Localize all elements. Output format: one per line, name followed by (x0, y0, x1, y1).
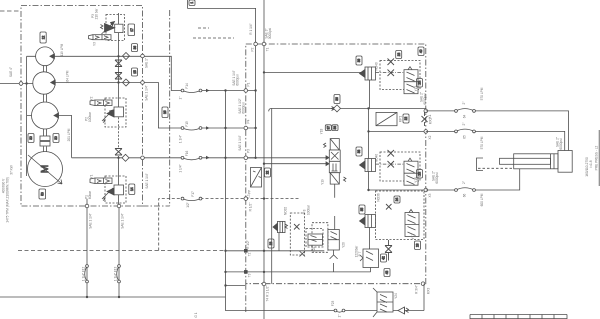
svg-text:1": 1" (179, 97, 183, 100)
svg-text:M: M (40, 165, 51, 173)
coupling (40, 136, 50, 141)
gauge plate MP1 (376, 112, 397, 125)
svg-text:F17: F17 (191, 191, 195, 197)
svg-text:38: 38 (357, 150, 361, 154)
svg-text:100bar: 100bar (88, 111, 92, 122)
piston rod (500, 158, 551, 164)
label box 1 (189, 0, 195, 6)
T3 return line inside (246, 271, 371, 273)
svg-text:Y2: Y2 (90, 96, 94, 100)
svg-text:570 LPM: 570 LPM (480, 136, 484, 149)
svg-text:2": 2" (462, 102, 466, 105)
shut-off valve X lower (115, 73, 122, 80)
port T2 square (244, 249, 248, 253)
label box 15 (132, 68, 138, 76)
drain manifold vertical x=225.5 (225, 91, 227, 298)
case drain line F12 (86, 199, 88, 297)
X1 work line to cylinder (426, 111, 569, 151)
solenoid valve Y24 (373, 288, 398, 317)
motor variable arrow (28, 155, 62, 184)
svg-text:37: 37 (327, 126, 331, 130)
svg-text:14: 14 (130, 187, 134, 191)
svg-text:Y24: Y24 (394, 293, 398, 299)
pump 1 pressure line (to P1 port) (54, 56, 245, 90)
P3 line inside to prop valve (246, 157, 326, 159)
tank return line T1 from top (263, 0, 265, 44)
svg-text:T1: T1 (266, 47, 270, 51)
port T3 square (244, 270, 248, 274)
solenoid vent valve Y1 (95, 178, 112, 184)
svg-text:65: 65 (463, 135, 467, 139)
hose F12 (85, 266, 87, 282)
svg-text:Y1: Y1 (90, 174, 94, 178)
svg-text:38: 38 (333, 126, 337, 130)
power unit rotated texts (2, 8, 342, 318)
svg-text:16: 16 (163, 110, 167, 114)
svg-text:SAE 1 1/4": SAE 1 1/4" (121, 213, 125, 229)
pump 2 pressure line (to P4 port) (55, 83, 246, 129)
svg-text:F13: F13 (114, 267, 118, 273)
svg-text:23: 23 (269, 242, 273, 246)
svg-text:1": 1" (338, 315, 342, 318)
label box 22a (265, 168, 271, 177)
svg-text:R 1/2": R 1/2" (246, 240, 250, 249)
svg-text:F14: F14 (185, 83, 189, 89)
hose F16 (183, 158, 201, 160)
filter PP (251, 168, 262, 188)
solenoid vent valve Y3 (93, 35, 111, 40)
svg-text:SAE 1 1/4": SAE 1 1/4" (89, 213, 93, 229)
valve Y20 (303, 184, 346, 272)
tank distribution line (264, 71, 361, 73)
svg-text:600 LPM: 600 LPM (480, 193, 484, 206)
hose F14 (183, 91, 201, 93)
label box 22b (403, 114, 409, 123)
svg-text:39: 39 (357, 59, 361, 63)
svg-text:Y17: Y17 (411, 233, 415, 239)
svg-text:R 1/2": R 1/2" (249, 203, 253, 212)
manifold enclosure (dash-dot box) (246, 44, 426, 312)
relief cartridge Y3 (115, 24, 123, 32)
svg-text:40: 40 (419, 49, 423, 53)
block left edge (269, 108, 272, 283)
svg-text:F15: F15 (185, 121, 189, 127)
svg-text:400/690 V: 400/690 V (2, 178, 6, 193)
check valve diamond W on main line (332, 105, 341, 112)
svg-text:T2: T2 (248, 252, 252, 256)
label box 30 (28, 134, 34, 143)
label box 36b (334, 95, 340, 104)
relief cartridge Y2 (114, 107, 124, 117)
pump P2 flow triangle (51, 80, 56, 85)
svg-text:SAE 1": SAE 1" (145, 58, 149, 68)
svg-text:Y20: Y20 (342, 242, 346, 248)
svg-text:6000psi: 6000psi (242, 102, 246, 113)
top truncation dashes (198, 27, 209, 29)
svg-text:1475 TPM (MAX.2100/MIN.700): 1475 TPM (MAX.2100/MIN.700) (6, 177, 10, 222)
relief cartridge Y1 (114, 185, 124, 195)
pilot cluster Y17 (376, 191, 425, 240)
label box 42 (381, 254, 387, 262)
svg-text:23: 23 (397, 53, 401, 57)
svg-text:NO32: NO32 (284, 207, 288, 216)
rod clevis (477, 158, 484, 171)
label box 12 (40, 32, 46, 43)
svg-text:22: 22 (404, 117, 408, 121)
hose F17 (183, 199, 201, 201)
edge continuation dashes (0, 10, 19, 12)
label box 39 (356, 56, 362, 65)
svg-text:1 1/4": 1 1/4" (179, 164, 183, 172)
pump P3 circle (36, 47, 55, 66)
svg-text:SAE 1 1/4": SAE 1 1/4" (145, 173, 149, 189)
pump P1 flow triangle (54, 113, 59, 118)
label box 38 (332, 125, 338, 131)
pump 3 pressure line (to P3 port) (59, 116, 246, 158)
svg-text:F23: F23 (331, 301, 335, 307)
label box 37 (325, 125, 331, 131)
svg-text:NO40: NO40 (375, 62, 379, 71)
pilot cluster Y16 (375, 150, 421, 185)
svg-text:P3: P3 (247, 149, 251, 153)
label box 23c (415, 241, 421, 250)
svg-text:2": 2" (462, 181, 466, 184)
svg-text:36: 36 (133, 46, 137, 50)
svg-text:1 1/4": 1 1/4" (114, 273, 118, 281)
supply rail inside manifold (246, 44, 256, 158)
relief valve Y2 cluster (90, 98, 126, 127)
tank port stubs to drain rail (226, 251, 246, 286)
svg-text:1/2": 1/2" (186, 202, 190, 208)
svg-text:35: 35 (360, 208, 364, 212)
relief valve Y1 cluster (90, 176, 126, 203)
right side labels (462, 87, 599, 206)
svg-text:24: 24 (395, 198, 399, 202)
svg-text:100bar: 100bar (307, 204, 311, 215)
stroke dashed line (478, 167, 514, 169)
proportional valve Y18/Y19 (320, 128, 347, 184)
svg-text:6000psi: 6000psi (236, 74, 240, 85)
svg-text:SAE 1 1/4": SAE 1 1/4" (238, 135, 242, 151)
svg-text:Y18: Y18 (320, 128, 324, 134)
label box 17 (128, 24, 135, 36)
svg-text:P1: P1 (247, 82, 251, 86)
relief valve Y3 cluster (89, 15, 125, 41)
tank line to prop valve (264, 163, 326, 165)
feed line to P2 from top (188, 0, 256, 44)
field boundary dashed line (18, 250, 226, 252)
label box 30b (53, 134, 59, 143)
boundary port circles (85, 42, 427, 286)
pump P1 circle (32, 102, 59, 129)
svg-text:1: 1 (190, 2, 194, 4)
label box 23d (268, 239, 274, 248)
hose F13 (117, 266, 119, 282)
svg-text:30: 30 (54, 136, 58, 140)
svg-text:12: 12 (41, 36, 45, 40)
svg-text:210 bar: 210 bar (95, 8, 99, 20)
flow arrows (206, 89, 210, 160)
label box 16 (162, 107, 168, 118)
svg-text:X3: X3 (428, 193, 432, 197)
svg-text:43: 43 (385, 271, 389, 275)
label box 23b (417, 170, 423, 179)
svg-text:P3: P3 (91, 14, 95, 18)
svg-text:66: 66 (463, 194, 467, 198)
relief rail vertical (118, 13, 120, 107)
pilot check NO32 (273, 207, 288, 251)
svg-text:SAE 1 1/4": SAE 1 1/4" (145, 85, 149, 101)
suction rail (0, 56, 36, 176)
tank rail inside manifold (263, 44, 265, 319)
hose 64 (456, 109, 474, 111)
svg-text:T4 R 1 1/2": T4 R 1 1/2" (266, 285, 270, 301)
svg-text:15: 15 (133, 70, 137, 74)
title underline (598, 130, 600, 186)
svg-text:23: 23 (416, 243, 420, 247)
svg-text:P1: P1 (85, 195, 89, 199)
hose 65 (456, 129, 474, 131)
X2 line inside (369, 130, 426, 132)
shaft between pumps (44, 66, 47, 152)
svg-text:23: 23 (418, 172, 422, 176)
X3 line inside (369, 189, 426, 191)
check valve diamond on line 2 (123, 79, 130, 86)
svg-text:MX2: MX2 (429, 118, 433, 125)
svg-text:6000psi: 6000psi (423, 93, 427, 104)
label box 14 (129, 184, 135, 195)
svg-text:R 3/4": R 3/4" (415, 285, 419, 294)
valve Y22 cluster (290, 213, 323, 257)
svg-text:30: 30 (29, 136, 33, 140)
svg-text:6000psi: 6000psi (435, 172, 439, 183)
check valve diamond on line 1 (123, 53, 130, 60)
svg-text:F12: F12 (82, 267, 86, 273)
svg-text:F16: F16 (185, 151, 189, 157)
electric motor M circle (28, 152, 63, 187)
MX3 riser (423, 284, 425, 311)
svg-text:i=1.8: i=1.8 (589, 160, 593, 167)
needle MX2 (422, 112, 428, 126)
svg-text:6000psi: 6000psi (559, 138, 563, 149)
svg-text:SAE 4": SAE 4" (9, 67, 13, 77)
svg-text:P2: P2 (251, 47, 255, 51)
relief valve 38 (360, 159, 376, 172)
pump P3 flow triangle (50, 54, 55, 59)
pilot cluster Y15 (375, 59, 421, 94)
label box 43 (384, 269, 390, 277)
label box 38b (356, 147, 362, 156)
svg-text:23: 23 (418, 81, 422, 85)
svg-text:R 1 1/4": R 1 1/4" (249, 23, 253, 34)
svg-text:Y15: Y15 (414, 85, 418, 91)
svg-text:1 1/4": 1 1/4" (179, 135, 183, 143)
drain corner to bottom drain line (226, 297, 425, 311)
shut-off valve X upper (115, 60, 122, 67)
hose F23 (336, 311, 344, 313)
svg-text:X2: X2 (428, 135, 432, 139)
label box 40 (418, 47, 424, 56)
svg-text:60bar: 60bar (88, 190, 92, 199)
svg-text:Y3: Y3 (93, 42, 97, 46)
svg-text:22: 22 (266, 171, 270, 175)
L1 drain dashed (159, 199, 300, 251)
case drain line F13 (118, 206, 120, 297)
svg-text:G 1: G 1 (194, 312, 198, 317)
svg-text:119 LPM: 119 LPM (60, 43, 64, 56)
cylinder end cap (558, 151, 572, 173)
label box 41 (396, 51, 402, 59)
left drain line (0, 296, 226, 298)
svg-text:164 LPM: 164 LPM (66, 70, 70, 83)
tank relief valve 39 (360, 67, 376, 108)
main pressure line to X1 (272, 108, 426, 111)
svg-text:P2: P2 (85, 117, 89, 121)
solenoid vent valve Y2 (95, 100, 112, 106)
svg-text:64: 64 (463, 115, 467, 119)
mid vertical connector (368, 108, 370, 190)
X3 work line to cylinder cap end (426, 169, 520, 190)
label box 35 (359, 205, 365, 214)
bottom boundary extension (143, 205, 170, 207)
label box 50 (39, 189, 46, 199)
shut-off valve 43 (385, 240, 392, 261)
power unit enclosure (dash-dot box) (21, 6, 170, 207)
svg-text:Y22: Y22 (312, 246, 316, 252)
check valve with spring (398, 307, 405, 314)
svg-text:MX3: MX3 (427, 288, 431, 295)
svg-text:50: 50 (40, 192, 44, 196)
shut-off valve X third (115, 149, 122, 156)
svg-text:17: 17 (130, 28, 134, 32)
svg-text:NO36: NO36 (377, 193, 381, 202)
label box 24 (394, 196, 400, 203)
svg-text:P4: P4 (247, 119, 251, 123)
label box 23a (417, 79, 423, 88)
scale bar (470, 315, 567, 319)
svg-text:T3: T3 (248, 273, 252, 277)
svg-text:P 7: P 7 (358, 251, 362, 256)
svg-text:37 KW: 37 KW (10, 165, 14, 175)
piping section boundary (dash-dot vertical) (169, 10, 171, 206)
pressure reducing valve P7 (355, 245, 379, 272)
port texts (232, 23, 439, 301)
svg-text:PP: PP (248, 190, 252, 194)
label box 36 (132, 44, 138, 52)
svg-text:42: 42 (382, 256, 386, 260)
svg-text:36: 36 (335, 97, 339, 101)
hose F15 (183, 128, 201, 130)
piston (551, 154, 555, 169)
relief valve 35 (360, 215, 376, 250)
check valve diamond on line 3 (122, 154, 129, 161)
X2 work line to cylinder (426, 131, 565, 150)
svg-text:1 1/4": 1 1/4" (82, 273, 86, 281)
svg-text:2": 2" (462, 123, 466, 126)
T2 line inside (246, 250, 324, 252)
hose 66 (456, 188, 474, 190)
svg-text:Y19: Y19 (321, 179, 325, 185)
svg-text:201 LPM: 201 LPM (67, 128, 71, 141)
pump P2 circle (33, 72, 55, 94)
svg-text:570 LPM: 570 LPM (480, 87, 484, 100)
svg-text:MP1: MP1 (399, 116, 403, 123)
svg-text:3000psi: 3000psi (268, 28, 272, 39)
cylinder barrel (514, 154, 558, 169)
svg-text:PRE PRESS - L2: PRE PRESS - L2 (595, 145, 599, 170)
